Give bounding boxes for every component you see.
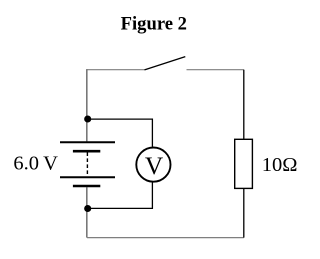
wire left upper (gray, top corner to battery) xyxy=(86,69,88,141)
switch S (open blade) xyxy=(145,57,186,70)
battery B1 dashed link xyxy=(86,152,88,175)
svg-text:Figure 2: Figure 2 xyxy=(121,14,187,35)
wire voltmeter bottom branch (black) xyxy=(88,183,153,209)
svg-text:6.0 V: 6.0 V xyxy=(13,153,58,175)
wire left lower (gray, battery to bottom corner) xyxy=(86,187,88,237)
wire voltmeter top branch (black) xyxy=(88,119,153,147)
wire bottom (gray) xyxy=(87,237,244,239)
node junction dot bottom xyxy=(84,205,91,212)
resistor R1 box xyxy=(235,139,253,188)
wire top-right (gray) xyxy=(187,69,244,71)
voltmeter U1 circle xyxy=(136,148,170,182)
battery B1 long plate 1 xyxy=(60,141,115,143)
svg-text:10Ω: 10Ω xyxy=(262,154,298,176)
node junction dot top xyxy=(84,115,91,122)
wire right lower (black, resistor to bottom) xyxy=(243,188,245,237)
wire right upper (black, corner to resistor) xyxy=(243,70,245,140)
battery B1 short plate 1 xyxy=(73,150,100,153)
svg-text:V: V xyxy=(145,152,164,180)
wire top-left (gray) xyxy=(87,69,145,71)
battery B1 long plate 2 xyxy=(60,176,115,178)
battery B1 short plate 2 xyxy=(73,185,100,188)
